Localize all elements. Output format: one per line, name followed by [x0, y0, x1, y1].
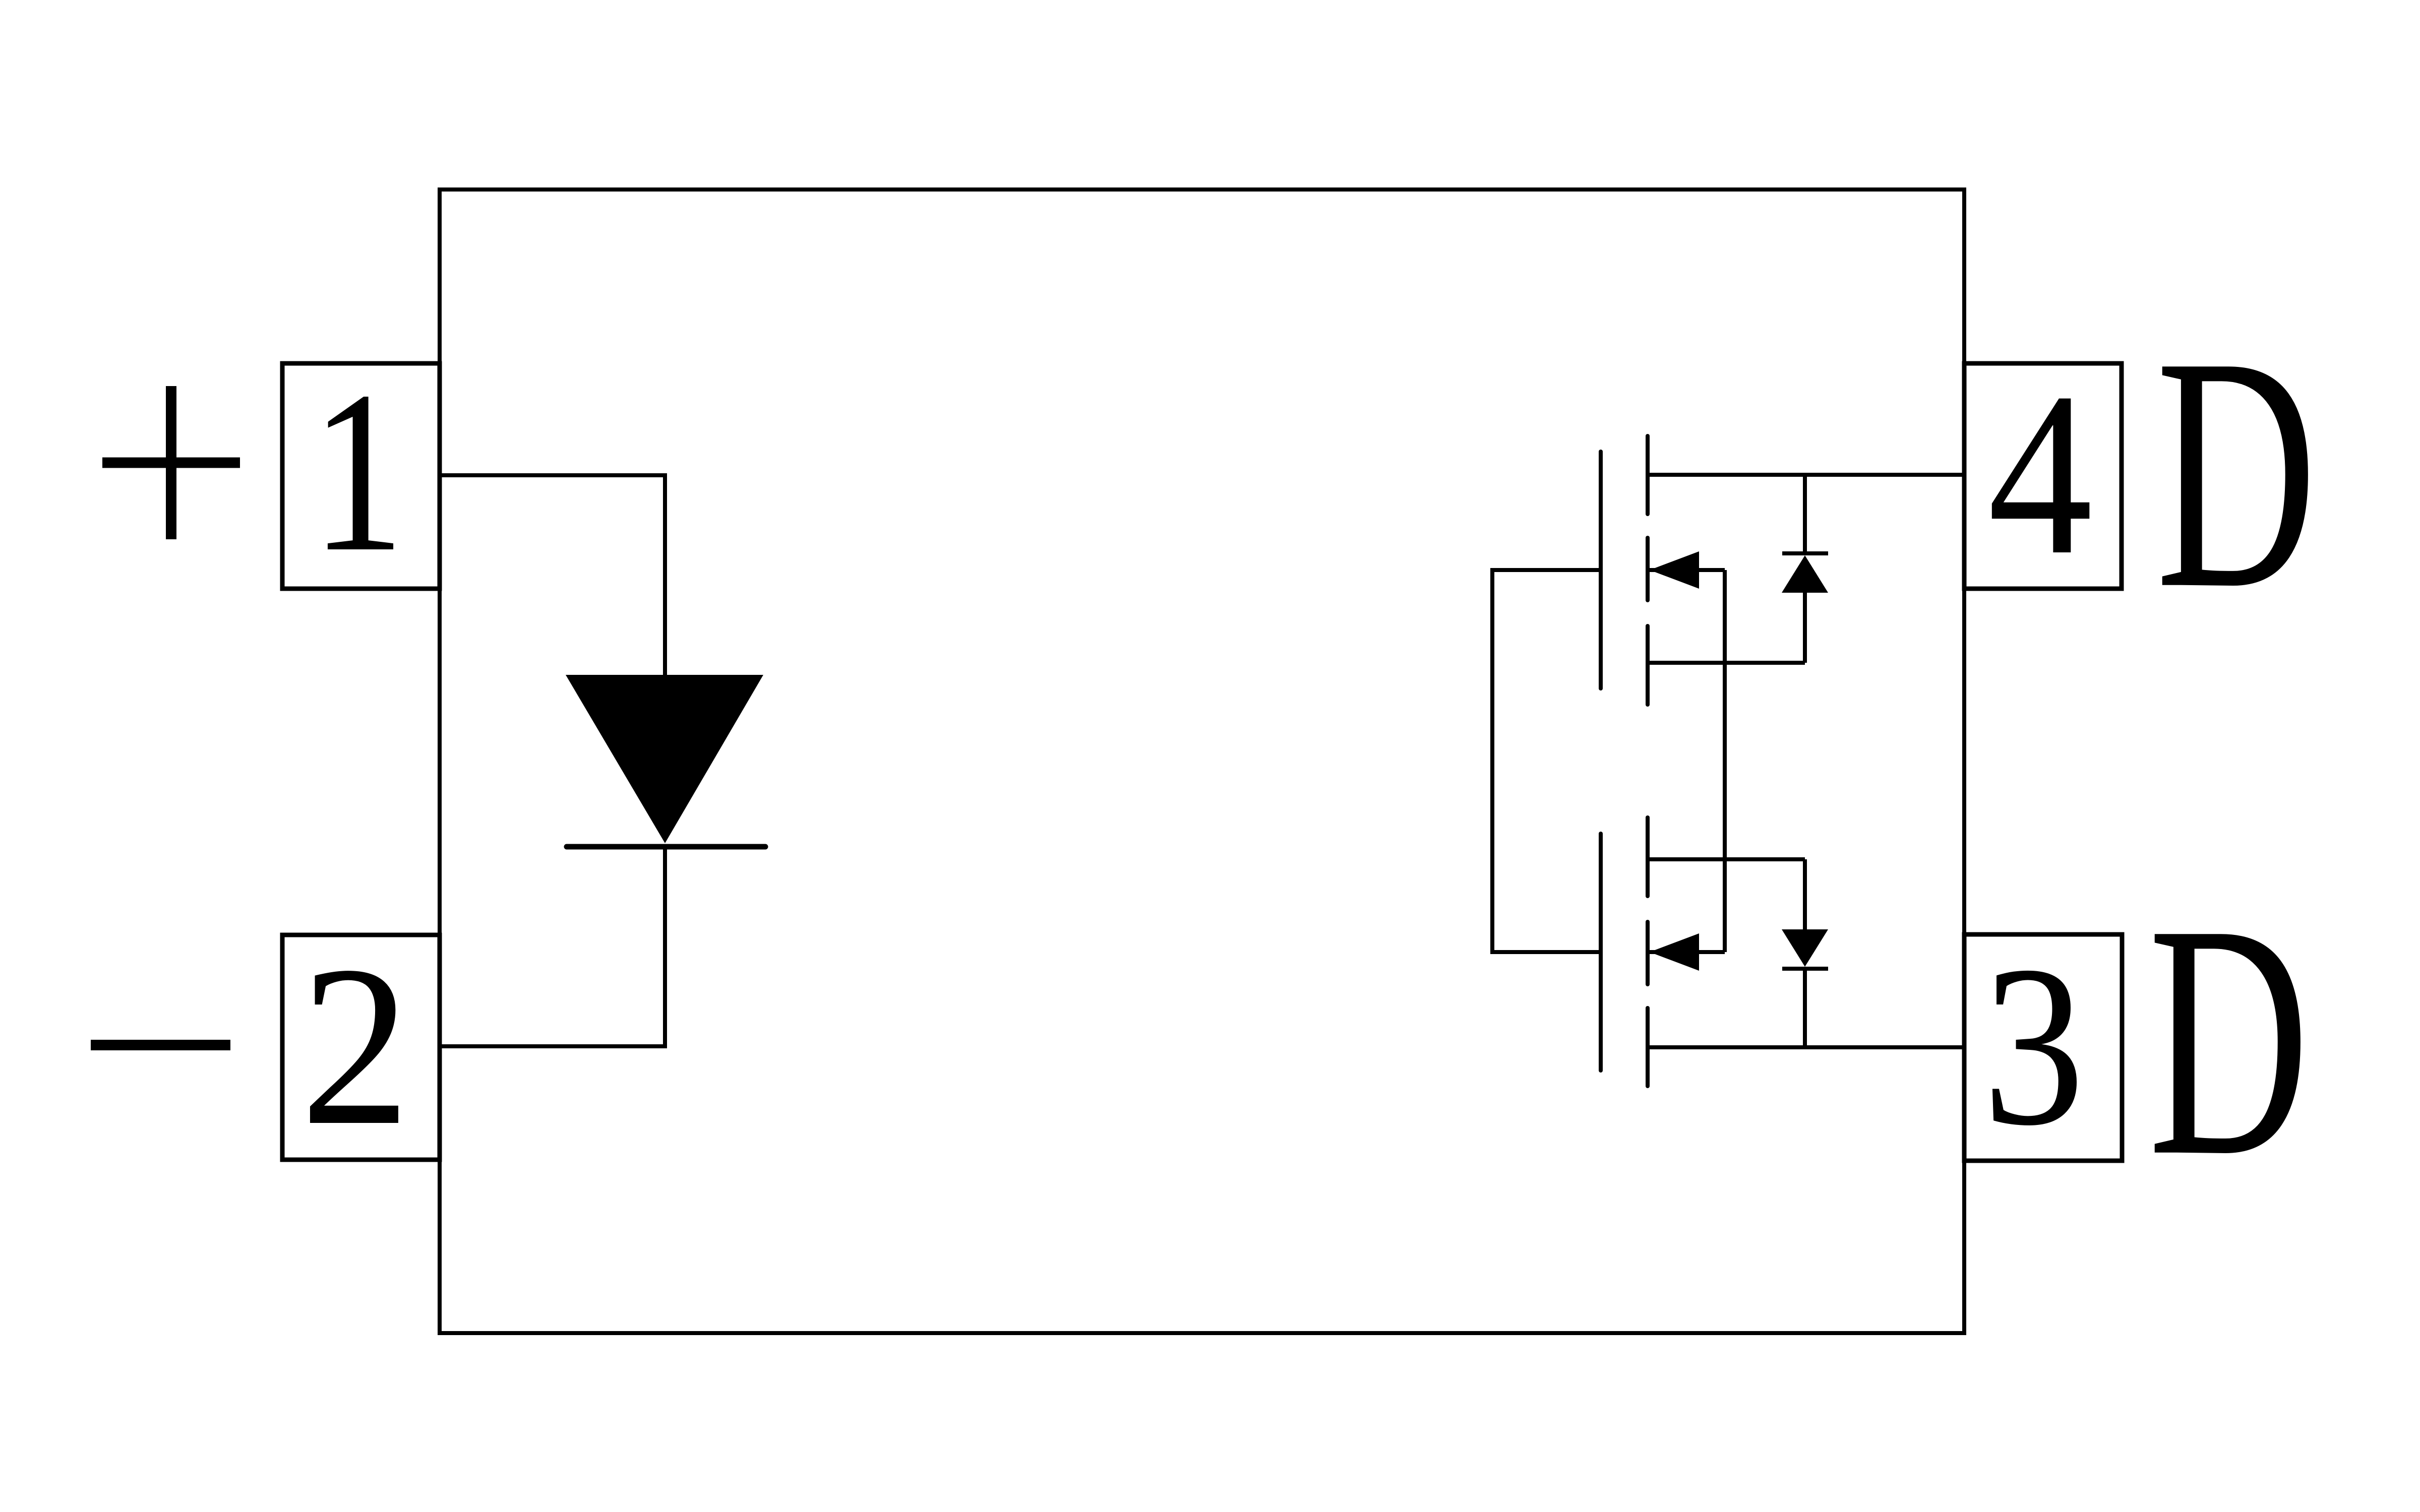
- polarity mark — [91, 1040, 230, 1050]
diode D2 (Q1 body diode) — [1782, 475, 1828, 663]
body tie wire between Q1 and Q2 — [1723, 570, 1727, 952]
pin 2 terminal box — [282, 935, 440, 1160]
svg-text:4: 4 — [1988, 344, 2093, 603]
svg-text:2: 2 — [300, 918, 410, 1173]
svg-text:3: 3 — [1983, 918, 2085, 1173]
pin 1 terminal box — [282, 363, 440, 589]
diode D3 (Q2 body diode) — [1782, 859, 1828, 1047]
wire Q1 source stub — [1648, 661, 1805, 665]
+ polarity mark — [102, 386, 240, 539]
transistor Q2 gate bar — [1599, 834, 1603, 1070]
pin 3 terminal box — [1964, 934, 2122, 1161]
wire pin1 to LED anode — [442, 475, 665, 677]
gate tie wire (pins of both gates bracket) — [1492, 570, 1599, 952]
wire Q1 drain to pin 4 — [1648, 473, 1964, 477]
wire Q2 drain to pin 3 — [1648, 1045, 1964, 1049]
transistor Q2 body arrow — [1650, 933, 1725, 971]
device outline box — [440, 190, 1964, 1333]
svg-text:D: D — [2156, 287, 2317, 657]
svg-text:D: D — [2148, 855, 2310, 1225]
transistor Q1 channel segments — [1646, 436, 1650, 705]
svg-text:1: 1 — [312, 344, 405, 600]
LED D1 cathode bar — [567, 844, 765, 850]
transistor Q1 gate bar — [1599, 452, 1603, 688]
pin 4 terminal box — [1964, 363, 2122, 589]
LED D1 anode triangle — [566, 675, 763, 843]
transistor Q1 body arrow — [1650, 551, 1725, 589]
transistor Q2 channel segments — [1646, 817, 1650, 1086]
wire LED cathode to pin2 — [442, 849, 665, 1046]
wire Q2 source stub — [1648, 857, 1805, 861]
